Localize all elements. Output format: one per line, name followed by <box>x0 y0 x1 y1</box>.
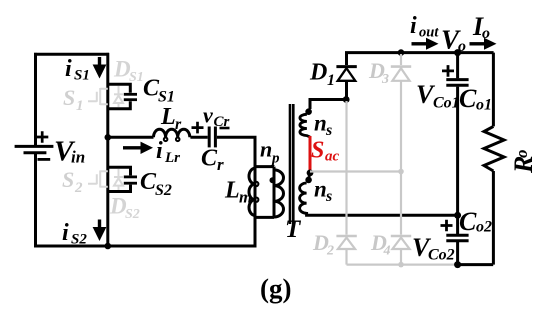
wire Ro branch lower <box>492 171 495 265</box>
svg-text:D: D <box>309 60 327 86</box>
capacitor C_o1 <box>446 80 468 86</box>
inductor L_m (bumps left on column) <box>249 168 258 215</box>
wire output column upper <box>456 53 459 79</box>
svg-text:i: i <box>156 138 163 164</box>
label D_S1 gray <box>113 57 144 86</box>
label S_1 gray <box>63 85 84 114</box>
svg-text:3: 3 <box>381 72 389 87</box>
transformer core bars <box>290 104 293 224</box>
label i_out <box>410 13 439 41</box>
wire primary top connector <box>255 165 274 168</box>
node output bottom junction <box>454 261 461 268</box>
diode D1 <box>336 53 356 100</box>
label V_Co1 <box>416 80 460 112</box>
node secondary bottom polarity dot <box>305 177 312 184</box>
label n_s top <box>314 111 332 140</box>
arrow i_Lr right <box>123 142 153 154</box>
label i_S1 <box>65 56 90 84</box>
svg-text:o2: o2 <box>476 219 492 236</box>
wire output column middle <box>456 87 459 234</box>
wire top-left rail <box>34 53 109 56</box>
svg-text:S2: S2 <box>71 232 87 248</box>
label D_1 <box>309 60 335 90</box>
svg-text:S: S <box>311 138 324 164</box>
svg-text:m: m <box>239 188 252 207</box>
wire secondary top lead <box>309 99 312 110</box>
label I_o <box>472 12 490 42</box>
svg-text:s: s <box>325 188 332 205</box>
transformer secondary top winding n_s <box>300 114 310 137</box>
wire gray bottom rail <box>347 264 458 266</box>
svg-text:p: p <box>270 151 280 167</box>
label C_S1 <box>143 76 175 106</box>
svg-text:v: v <box>203 103 213 128</box>
svg-text:r: r <box>217 155 224 174</box>
wire S_ac red link <box>309 136 312 171</box>
svg-text:Co1: Co1 <box>433 95 460 112</box>
capacitor C_S2 branch <box>108 167 137 191</box>
transistor S2 (gray mosfet) <box>88 171 108 188</box>
wire between L_r and C_r <box>190 136 207 139</box>
svg-text:i: i <box>65 56 72 82</box>
svg-text:C: C <box>459 207 477 236</box>
svg-text:C: C <box>459 84 477 113</box>
label n_p <box>260 137 280 167</box>
wire mid branch left <box>108 136 154 139</box>
wire gray center tap <box>310 170 401 172</box>
node D1 anode junction <box>343 96 350 103</box>
label V_in <box>54 136 85 168</box>
label V_o <box>441 25 466 56</box>
svg-text:n: n <box>314 111 327 136</box>
svg-text:(g): (g) <box>260 274 291 304</box>
label D_2 gray <box>312 230 334 259</box>
svg-text:i: i <box>410 13 417 39</box>
svg-text:S2: S2 <box>125 207 140 222</box>
svg-text:L: L <box>160 104 176 130</box>
svg-text:s: s <box>325 122 332 139</box>
svg-text:T: T <box>285 216 302 243</box>
diode D_S2 body (gray) <box>114 169 123 190</box>
wire left rail upper <box>34 53 37 146</box>
inductor L_r <box>154 129 190 141</box>
svg-text:S1: S1 <box>74 68 90 84</box>
wire output bottom <box>458 263 494 266</box>
wire left rail lower <box>34 153 37 248</box>
label S_2 gray <box>62 167 83 196</box>
svg-text:Lr: Lr <box>164 150 180 166</box>
arrow i_S2 down <box>93 220 107 242</box>
capacitor C_S1 branch <box>108 84 137 109</box>
wire Ro branch upper <box>492 53 495 127</box>
wire C_r to Lm column <box>217 136 257 139</box>
wire output column lower <box>456 242 459 265</box>
svg-text:C: C <box>201 146 218 172</box>
node bottom rail junction <box>105 243 112 250</box>
wire secondary bottom horizontal <box>307 212 458 215</box>
label C_r <box>201 146 224 175</box>
label n_s bottom <box>314 177 332 206</box>
transformer secondary bottom winding n_s <box>300 175 310 213</box>
wire bottom rail <box>34 245 257 248</box>
node mid-bridge junction <box>105 134 112 141</box>
diode D_S1 body (gray) <box>114 86 123 107</box>
wire top rail <box>345 51 494 54</box>
label L_r <box>160 104 182 133</box>
svg-text:S: S <box>63 85 75 110</box>
label R_o rotated <box>509 150 538 175</box>
resistor R_o <box>484 126 504 171</box>
wire mosfet column <box>106 53 109 246</box>
node primary polarity dot <box>270 177 276 183</box>
label D_4 gray <box>370 230 391 259</box>
label D_S2 gray <box>109 194 140 223</box>
battery V_in <box>15 131 54 159</box>
svg-text:n: n <box>260 137 272 162</box>
node secondary top polarity dot <box>305 108 312 115</box>
label C_o2 <box>459 207 492 236</box>
label L_m <box>224 178 252 207</box>
arrow i_S1 down <box>93 57 107 79</box>
svg-text:i: i <box>62 220 69 246</box>
svg-text:4: 4 <box>383 244 391 259</box>
svg-text:L: L <box>224 178 240 204</box>
svg-text:out: out <box>419 25 439 41</box>
svg-text:1: 1 <box>76 98 84 114</box>
wire secondary top horizontal <box>309 98 347 101</box>
wire primary bottom connector <box>255 216 274 219</box>
diode D4 gray <box>391 172 411 265</box>
svg-text:1: 1 <box>327 72 335 89</box>
svg-text:o1: o1 <box>476 97 492 114</box>
diode D2 gray <box>336 101 356 265</box>
svg-text:ac: ac <box>325 149 340 165</box>
svg-text:o: o <box>512 150 531 159</box>
arrow I_o <box>470 38 497 50</box>
capacitor C_r <box>209 127 215 148</box>
node top rail Co1 junction <box>454 49 461 56</box>
label i_S2 <box>62 220 87 248</box>
label D_3 gray <box>368 58 389 87</box>
label minus v_Cr <box>220 127 230 130</box>
svg-text:Co2: Co2 <box>428 247 455 264</box>
label C_o1 <box>459 84 492 114</box>
label plus C_o2 <box>441 220 453 232</box>
transistor S1 (gray mosfet) <box>88 88 108 105</box>
svg-text:2: 2 <box>74 180 83 196</box>
node secondary-to-cap junction <box>454 212 461 219</box>
label i_Lr <box>156 138 180 166</box>
node center tap dot <box>307 170 314 177</box>
svg-text:S: S <box>62 167 74 192</box>
label plus C_o1 <box>442 65 454 77</box>
arrow i_out <box>412 38 439 50</box>
node gray center tap junction <box>398 169 404 175</box>
svg-text:S1: S1 <box>158 89 175 106</box>
svg-text:2: 2 <box>326 244 334 259</box>
transformer primary winding n_p <box>274 167 284 218</box>
label plus v_Cr <box>192 122 204 134</box>
capacitor C_o2 <box>446 235 468 241</box>
label V_Co2 <box>412 233 455 264</box>
label S_ac red <box>311 138 340 165</box>
label C_S2 <box>140 169 172 199</box>
wire Lm column <box>254 137 257 246</box>
svg-text:S2: S2 <box>155 182 172 199</box>
label v_Cr <box>203 103 230 131</box>
svg-text:n: n <box>314 177 327 202</box>
diode D3 gray <box>391 54 411 172</box>
node gray rail D4 junction <box>398 262 404 268</box>
node top rail D3 junction <box>398 49 405 56</box>
svg-text:in: in <box>71 148 85 167</box>
